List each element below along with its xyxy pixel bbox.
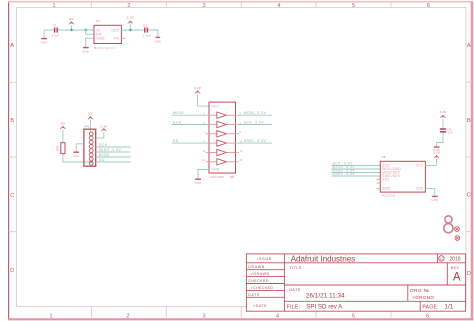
svg-text:C2: C2 (143, 23, 147, 27)
svg-text:1: 1 (52, 3, 55, 9)
wire net 3.3V from U1 OUT (121, 29, 143, 31)
svg-text:C: C (440, 257, 443, 261)
ground GND2 (U1 gnd) (82, 48, 89, 54)
regulator U1 MCP1700-3.3 (94, 19, 122, 50)
fiducial F1 (455, 227, 460, 232)
wire C2 to ground (148, 30, 158, 37)
svg-text:Adafruit Industries: Adafruit Industries (291, 254, 355, 263)
capacitor C2 1.0uF (143, 23, 152, 37)
svg-text:6: 6 (427, 3, 430, 9)
supply +3.3V P8 (bypass) (439, 110, 447, 128)
svg-text:DRG №: DRG № (410, 288, 429, 294)
svg-text:26/1/21 11:34: 26/1/21 11:34 (306, 293, 345, 300)
svg-text:DRAWN: DRAWN (248, 265, 265, 269)
ground GND7 (sd vss) (431, 196, 438, 202)
svg-text:SCK_3.3V: SCK_3.3V (244, 121, 265, 125)
svg-text:GND: GND (82, 49, 89, 53)
svg-text:U1: U1 (96, 19, 100, 23)
svg-text:DATE: DATE (248, 293, 260, 297)
svg-text:3.3V: 3.3V (127, 16, 135, 20)
svg-text:REV: REV (451, 266, 460, 270)
capacitor C3 1uF (bypass) (440, 127, 453, 134)
wire VSS sd to ground (425, 189, 434, 196)
wire VCC to buffer (198, 105, 210, 107)
pin stubs sd unconnected (377, 180, 381, 189)
ground GND3 (output cap) (154, 37, 161, 43)
svg-text:CHECKED: CHECKED (248, 279, 269, 283)
svg-text:6: 6 (426, 314, 429, 320)
buffer gate A3 (209, 131, 236, 137)
wire net 5V from C1 to U1 (58, 29, 94, 31)
svg-text:MOSI: MOSI (99, 153, 110, 157)
svg-text:JP1: JP1 (84, 125, 90, 129)
ground GND6 (bypass) (433, 147, 440, 152)
ground GND5 (buffer) (195, 179, 202, 185)
wire net SSEL_3.3V (buffer out) (236, 139, 273, 143)
svg-text:D: D (10, 268, 14, 274)
wire header GND pin (76, 144, 84, 152)
supply +5V P3 (pullup) (60, 121, 66, 142)
junction node IN/EN (85, 29, 87, 31)
svg-text:A: A (453, 272, 461, 284)
svg-text:10uF: 10uF (52, 34, 60, 38)
svg-text:FILE:: FILE: (287, 305, 300, 311)
svg-text:GND: GND (431, 198, 438, 202)
svg-text:A: A (467, 43, 471, 49)
svg-text:>DATE: >DATE (253, 304, 267, 308)
svg-text:GND: GND (195, 181, 202, 185)
svg-text:1uF: 1uF (447, 131, 453, 135)
buffer gate A4 (209, 140, 236, 146)
buffer U5 74HC4050 (209, 102, 236, 179)
svg-text:3: 3 (202, 3, 205, 9)
buffer gate A6 (209, 159, 236, 165)
svg-text:2018: 2018 (449, 257, 460, 263)
wire EN branch (86, 30, 94, 34)
svg-text:5: 5 (352, 3, 355, 9)
wire 3.3V to header pin2 (96, 137, 104, 139)
svg-text:3.3V: 3.3V (439, 110, 447, 114)
pin stub PG (121, 37, 125, 39)
pin stubs unconnected buffer (206, 134, 239, 162)
svg-text:SD2: SD2 (382, 178, 389, 182)
wire net MOSI (header) (96, 153, 131, 157)
wire C3 to ground (437, 133, 444, 147)
junction node 5V/C1 (70, 29, 72, 31)
svg-text:>DRGNO: >DRGNO (412, 295, 434, 300)
buffer gate A2 (209, 121, 236, 127)
svg-text:U5: U5 (230, 175, 234, 179)
svg-text:MCP1700-3.3: MCP1700-3.3 (94, 46, 115, 50)
svg-text:B: B (467, 118, 471, 124)
wire GND pin branch (86, 38, 94, 47)
wire VCC sd (425, 165, 436, 167)
supply +5V P4 (header) (88, 112, 94, 131)
resistor R1 10K (56, 143, 65, 154)
svg-text:B: B (10, 118, 14, 124)
svg-text:GND: GND (433, 148, 440, 152)
svg-text:VSS: VSS (416, 187, 423, 191)
wire net SCK (buffer in) (172, 121, 210, 125)
svg-text:1: 1 (49, 314, 52, 320)
svg-text:SS: SS (99, 158, 105, 162)
wire net SCK_3.3V (sd in) (332, 162, 381, 166)
svg-text:5V: 5V (69, 17, 74, 21)
supply +5V P1 (69, 17, 75, 30)
svg-text:OUT: OUT (111, 28, 119, 32)
wire net MOSI (buffer in) (172, 111, 210, 115)
wire net SCK_3.3V (buffer out) (236, 121, 273, 125)
svg-text:SPI SD rev A: SPI SD rev A (306, 304, 343, 311)
svg-text:PAGE:: PAGE: (422, 305, 438, 311)
svg-text:GND: GND (73, 154, 80, 158)
svg-text:DATE: DATE (289, 288, 301, 292)
svg-text:10K: 10K (56, 145, 60, 151)
svg-text:SCK: SCK (99, 143, 108, 147)
svg-text:SSEL_3.3V: SSEL_3.3V (244, 139, 267, 143)
mounting hole MH2 (444, 224, 453, 233)
ground GND4 (header) (73, 152, 80, 158)
svg-text:VCC: VCC (416, 164, 424, 168)
wire net 5V to C1 (44, 29, 54, 31)
capacitor C1 10uF (52, 23, 60, 37)
pin numbers buffer (202, 113, 243, 163)
wire net SS (buffer in) (172, 139, 210, 143)
svg-text:VCC: VCC (212, 104, 220, 108)
svg-text:1.0uF: 1.0uF (143, 34, 152, 38)
svg-text:SCK: SCK (173, 121, 182, 125)
buffer gate A5 (209, 149, 236, 155)
supply +3.3V P7 (sd vcc) (433, 151, 441, 166)
header JP1 (84, 125, 96, 167)
sd card U6 (380, 155, 425, 198)
svg-text:>DRAWN: >DRAWN (251, 272, 270, 276)
svg-text:MOSI_3.3V: MOSI_3.3V (244, 111, 267, 115)
supply +3.3V P5 (header) (100, 124, 108, 138)
svg-text:C: C (467, 193, 471, 199)
svg-text:TITLE: TITLE (289, 266, 302, 270)
svg-text:GND: GND (212, 167, 220, 171)
svg-text:5: 5 (352, 314, 355, 320)
svg-text:C1: C1 (53, 23, 57, 27)
wire R1 to SS junction (63, 154, 91, 162)
svg-text:2: 2 (127, 3, 130, 9)
ground GND1 (input cap) (41, 30, 48, 45)
junction node SS pullup (90, 161, 92, 163)
svg-text:SS: SS (173, 139, 179, 143)
wire buffer GND (198, 170, 209, 179)
svg-text:ISSUE: ISSUE (257, 257, 272, 261)
svg-text:A: A (10, 43, 14, 49)
wire net MISO_3.3V (sd in) (332, 169, 381, 173)
svg-text:3: 3 (202, 314, 205, 320)
svg-text:SSEL_3.3V: SSEL_3.3V (333, 172, 356, 176)
svg-text:MOSI: MOSI (173, 111, 184, 115)
svg-text:3.3V: 3.3V (194, 86, 202, 90)
svg-text:5V: 5V (88, 112, 93, 116)
svg-text:GND: GND (96, 37, 105, 41)
wire net MOSI_3.3V (sd in) (332, 165, 381, 169)
svg-text:3.3V: 3.3V (100, 124, 108, 128)
svg-text:PG: PG (114, 37, 120, 41)
svg-text:>CHECKED: >CHECKED (251, 286, 274, 290)
svg-text:D: D (467, 271, 471, 277)
buffer gate A1 (209, 112, 236, 118)
svg-text:C: C (10, 193, 14, 199)
wire net SS (header) (96, 158, 131, 162)
wire net SCK (header) (96, 143, 131, 147)
svg-text:4UCONN: 4UCONN (381, 194, 395, 198)
svg-text:GND: GND (41, 41, 48, 45)
svg-text:5V: 5V (61, 121, 66, 125)
supply +3.3V P6 (buffer) (194, 86, 202, 106)
wire net MISO_3.3V (header) (96, 148, 131, 152)
supply +3.3V P2 (127, 16, 135, 30)
svg-text:1/1: 1/1 (445, 304, 454, 311)
mounting hole MH1 (445, 216, 452, 223)
svg-text:GND: GND (382, 187, 390, 191)
wire net SSEL_3.3V (sd in) (332, 172, 381, 176)
svg-text:GND: GND (154, 40, 161, 44)
junction node 3.3V/C2 (129, 29, 131, 31)
fiducial F2 (455, 236, 460, 241)
svg-text:U6: U6 (381, 155, 385, 159)
svg-text:2: 2 (126, 314, 129, 320)
TITLEBLOCK (246, 254, 465, 311)
wire net MOSI_3.3V (buffer out) (236, 111, 273, 115)
svg-text:MISO_3.3V: MISO_3.3V (99, 148, 122, 152)
svg-text:74HC4050: 74HC4050 (210, 175, 225, 179)
